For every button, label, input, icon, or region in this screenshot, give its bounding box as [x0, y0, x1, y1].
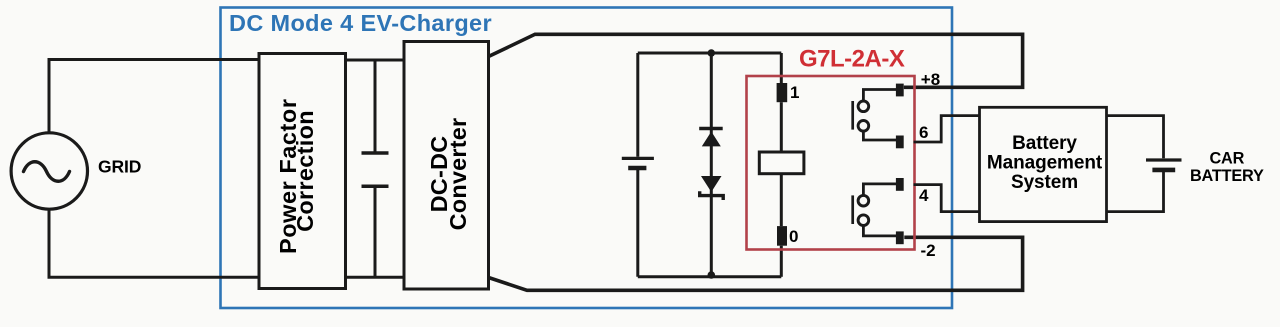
- svg-text:0: 0: [789, 227, 798, 246]
- svg-text:GRID: GRID: [98, 156, 141, 176]
- svg-text:Correction: Correction: [292, 110, 318, 232]
- svg-text:Management: Management: [987, 153, 1103, 174]
- svg-text:BATTERY: BATTERY: [1190, 167, 1264, 185]
- svg-text:Battery: Battery: [1012, 133, 1077, 154]
- svg-text:+8: +8: [921, 70, 940, 89]
- svg-text:Converter: Converter: [445, 118, 471, 231]
- svg-text:4: 4: [919, 186, 929, 205]
- svg-text:6: 6: [919, 123, 928, 142]
- svg-text:CAR: CAR: [1209, 150, 1244, 168]
- svg-text:DC Mode 4 EV-Charger: DC Mode 4 EV-Charger: [229, 10, 492, 36]
- svg-text:1: 1: [790, 83, 799, 102]
- svg-text:-2: -2: [921, 241, 936, 260]
- svg-text:System: System: [1011, 172, 1078, 193]
- svg-text:G7L-2A-X: G7L-2A-X: [799, 46, 905, 73]
